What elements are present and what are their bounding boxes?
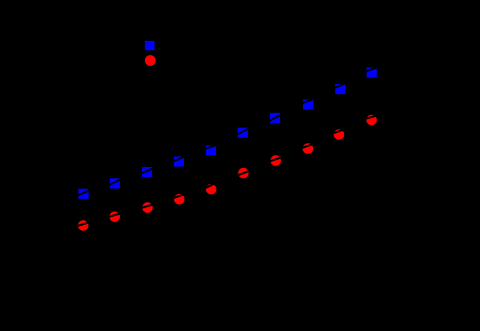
blue point B4	[174, 156, 184, 166]
red point R2	[109, 212, 120, 223]
red point R7	[270, 155, 281, 166]
red point R3	[142, 202, 153, 213]
red series markers (circles)	[78, 115, 377, 231]
legend marker: blue square	[145, 41, 155, 50]
red point R9	[334, 129, 345, 140]
blue point B8	[303, 99, 313, 109]
red point R1	[78, 220, 89, 231]
blue point B1	[78, 189, 88, 199]
blue point B3	[142, 167, 152, 177]
legend marker: red circle	[145, 55, 156, 66]
red point R4	[174, 194, 185, 205]
blue point B9	[335, 84, 345, 94]
red point R10	[366, 115, 377, 126]
blue series markers (squares)	[78, 67, 376, 198]
red point R6	[238, 168, 249, 179]
blue point B5	[206, 145, 216, 155]
blue point B2	[110, 178, 120, 188]
blue point B7	[270, 113, 280, 123]
blue series line (black, drawn over markers)	[77, 67, 379, 196]
red series line (black, drawn over markers)	[76, 115, 378, 226]
blue point B6	[238, 128, 248, 138]
red point R8	[303, 143, 314, 154]
red point R5	[206, 184, 217, 195]
blue point B10	[367, 67, 377, 77]
